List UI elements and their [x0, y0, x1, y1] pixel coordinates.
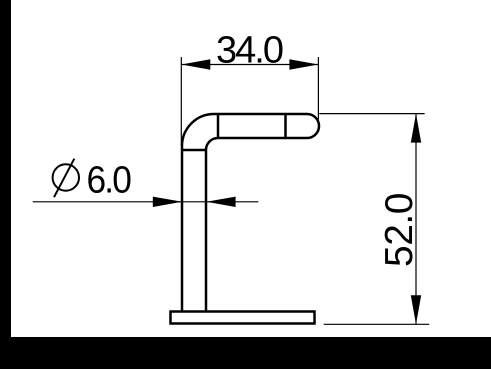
- bottom black border band: [0, 337, 491, 369]
- extension line left (34.0): [180, 57, 182, 146]
- diameter symbol: [53, 159, 79, 198]
- tube outer outline: left side, outer elbow arc, top line: [182, 114, 307, 311]
- tangent edge vertical at elbow: [217, 115, 220, 138]
- arrowhead left (34.0): [181, 59, 210, 69]
- arrowhead right (34.0): [289, 59, 318, 69]
- tube rounded end cap: [307, 114, 319, 138]
- extension line right (34.0): [317, 57, 319, 120]
- left black border strip: [0, 0, 11, 338]
- arrowhead pointing right at tube left: [153, 197, 182, 207]
- svg-text:52.0: 52.0: [378, 193, 421, 267]
- extension line bottom (52.0): [324, 323, 430, 325]
- svg-text:6.0: 6.0: [87, 160, 131, 202]
- arrowhead up (52.0): [411, 114, 421, 143]
- tube inner outline: bottom line, inner elbow arc, right side: [206, 138, 307, 311]
- dimension line 34.0: [181, 64, 318, 66]
- base plate: [171, 312, 315, 324]
- end cap edge line: [284, 115, 287, 138]
- arrowhead down (52.0): [411, 295, 421, 324]
- dimension line 52.0: [415, 114, 417, 325]
- svg-text:34.0: 34.0: [216, 30, 283, 72]
- arrowhead pointing left at tube right: [206, 197, 235, 207]
- tangent edge horizontal at elbow: [183, 149, 206, 152]
- extension line top (52.0): [319, 113, 424, 115]
- leader line diameter 6.0: [33, 201, 259, 203]
